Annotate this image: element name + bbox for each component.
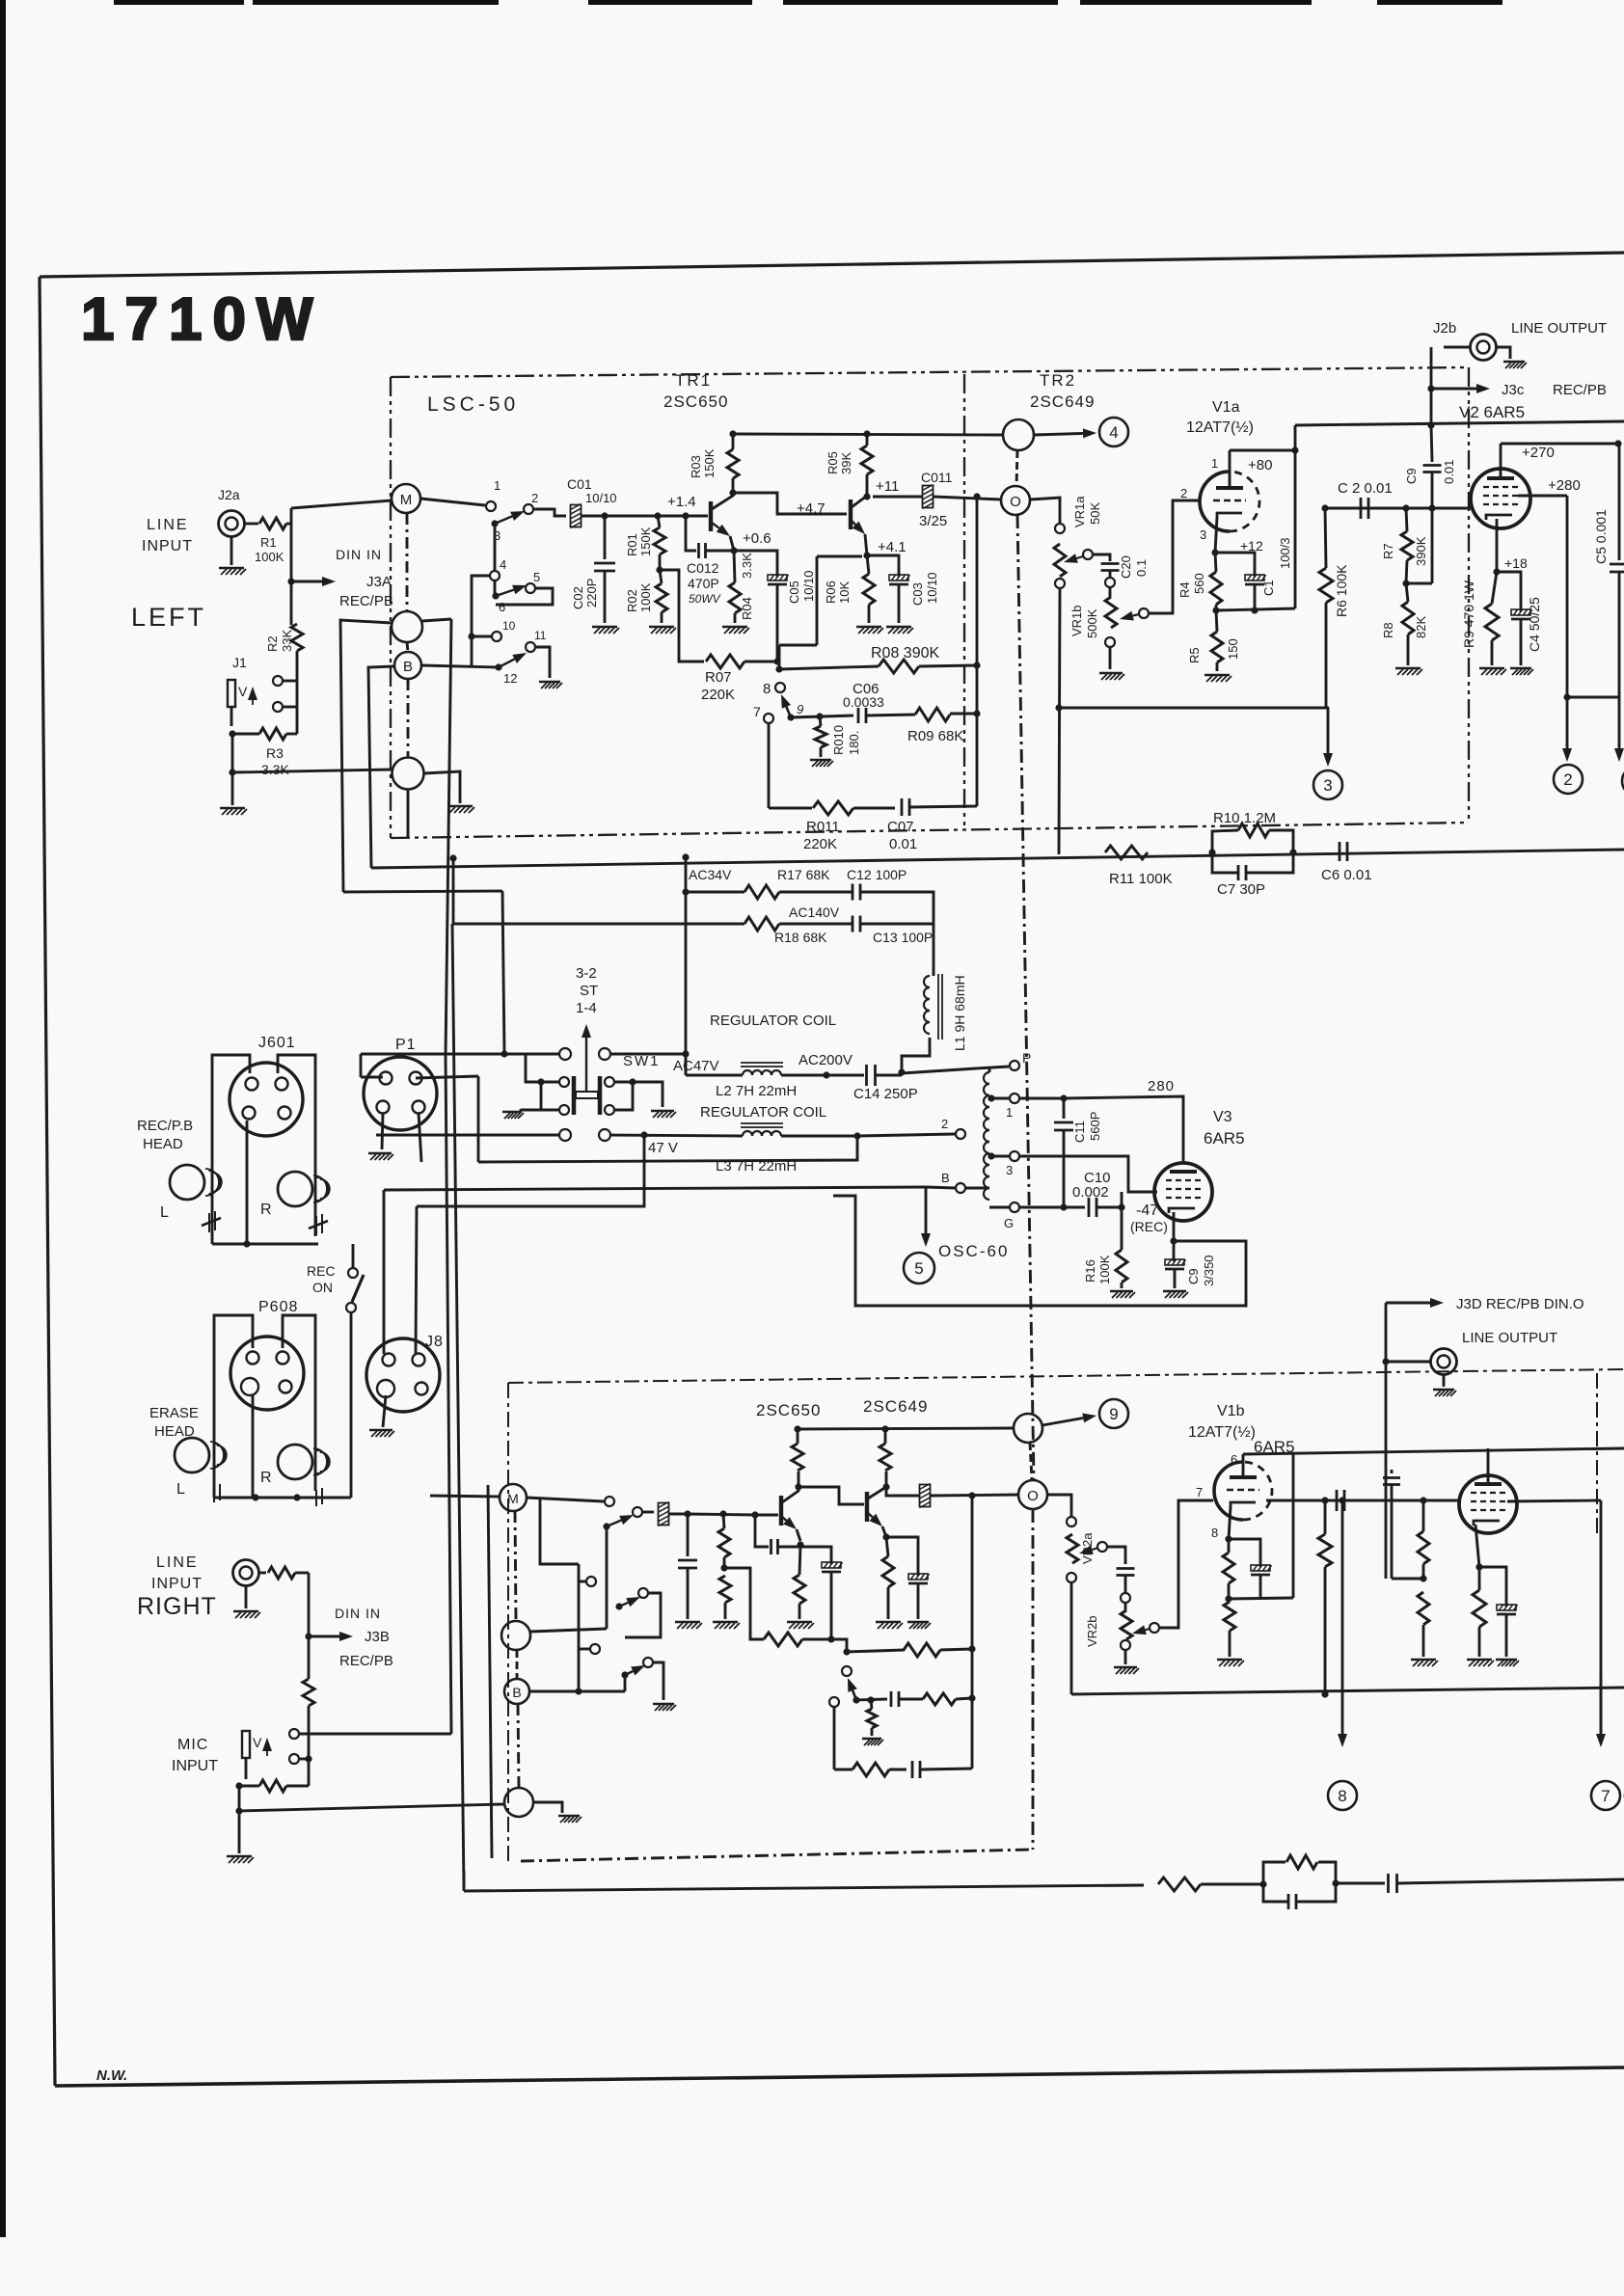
svg-text:220K: 220K (803, 836, 837, 852)
node mech R (629, 1078, 636, 1085)
resistor R07 right (764, 1633, 802, 1646)
wire bundle y1203 (478, 1136, 857, 1162)
svg-text:OSC-60: OSC-60 (938, 1242, 1009, 1260)
switch arm 9-8 (786, 707, 791, 717)
ground under C03 right (907, 1622, 931, 1629)
wire R011 right row (834, 1769, 853, 1771)
svg-text:ERASE: ERASE (149, 1405, 199, 1421)
node L1 C14 (898, 1068, 905, 1075)
resistor R17 (744, 885, 779, 899)
ground under VR1b (1099, 673, 1124, 680)
svg-text:V1a: V1a (1212, 399, 1240, 416)
node rail R03 right (794, 1425, 800, 1432)
transformer T1 winding (984, 1072, 989, 1200)
wire R3 node to ground (231, 734, 234, 805)
svg-text:2: 2 (1180, 486, 1187, 500)
svg-text:LINE: LINE (156, 1554, 199, 1571)
svg-text:C7 30P: C7 30P (1217, 881, 1265, 898)
V3 cathode lead (1173, 1212, 1176, 1241)
svg-text:J601: J601 (258, 1035, 296, 1051)
wire R2 to mic switch (296, 651, 299, 707)
svg-text:2SC649: 2SC649 (863, 1397, 928, 1416)
ground under r11 (653, 1704, 676, 1711)
wire REC ON down (350, 1312, 353, 1498)
resistor R011 right (853, 1763, 889, 1776)
TR2 emitter arrow (852, 521, 855, 525)
contact r5 (638, 1588, 648, 1598)
svg-text:+270: +270 (1522, 445, 1555, 461)
P608 bracket right (283, 1315, 315, 1491)
node C01 out (601, 512, 608, 519)
svg-text:3: 3 (1006, 1163, 1013, 1177)
capacitor C4 (1497, 572, 1521, 611)
block LSC-50 box top (391, 367, 1469, 377)
svg-text:280: 280 (1148, 1078, 1175, 1094)
node R7 bottom (1402, 580, 1409, 586)
wire right mic upper to bundle (299, 1733, 451, 1736)
wire +270 (1501, 443, 1618, 446)
wire base bias to R07 (660, 570, 704, 662)
connector P1 (364, 1057, 437, 1130)
wire cathode row right (1229, 1598, 1293, 1599)
TR2 collector (852, 474, 867, 507)
svg-text:AC200V: AC200V (798, 1052, 853, 1068)
node terminal8 tap (1339, 1497, 1345, 1503)
wire cathode node row (1216, 608, 1295, 610)
mic jack J1 (228, 680, 235, 707)
node V1a cathode (1211, 549, 1218, 555)
svg-text:+11: +11 (876, 478, 899, 495)
wire AC140V drop (452, 858, 455, 924)
connector circle mid (392, 611, 422, 642)
contact 3 arm (491, 520, 498, 527)
capacitor C9 osc (1173, 1241, 1176, 1261)
svg-text:C14 250P: C14 250P (853, 1086, 918, 1102)
arrow DIN IN J3A (291, 581, 322, 583)
svg-text:B: B (512, 1685, 521, 1700)
capacitor C011 (923, 485, 934, 509)
capacitor C9 (1431, 425, 1432, 462)
wire 280 row (1064, 1096, 1183, 1162)
svg-text:5: 5 (914, 1259, 923, 1278)
node TR1 right base (751, 1511, 758, 1518)
switch mech left bar (572, 1076, 577, 1115)
resistor R05 right (880, 1444, 891, 1471)
ground under R8 (1395, 668, 1422, 675)
node +270 end (1614, 440, 1621, 446)
wire SW1 row1 right (610, 1053, 686, 1056)
svg-text:O: O (1027, 1488, 1039, 1504)
P1 ground lead (382, 1113, 383, 1149)
svg-text:LSC-50: LSC-50 (427, 393, 519, 416)
node TR2 emitter (863, 552, 870, 558)
wire mid circle right (422, 619, 451, 621)
svg-text:R9 470 1W: R9 470 1W (1461, 580, 1476, 648)
svg-text:R2: R2 (265, 635, 280, 652)
wire right R3 to ground (238, 1786, 241, 1853)
erase head R (278, 1445, 312, 1479)
switch REC ON (348, 1268, 358, 1278)
resistor R010 right (867, 1709, 877, 1728)
ground under R9 right (1467, 1660, 1494, 1666)
connector circle B right (504, 1679, 529, 1704)
wire C13 right (860, 923, 934, 926)
node tap 1 (988, 1094, 994, 1101)
capacitor C5 (1618, 444, 1621, 560)
V4 screen lead (1507, 1500, 1601, 1501)
wire R08 right row (847, 1650, 905, 1652)
erase L core gap (213, 1486, 215, 1502)
svg-text:L1 9H 68mH: L1 9H 68mH (952, 975, 967, 1051)
wire right jack ground (245, 1586, 248, 1609)
node R7 right top (1420, 1497, 1426, 1503)
svg-text:J3c: J3c (1502, 382, 1525, 398)
resistor R04 (729, 582, 741, 613)
svg-text:R7: R7 (1381, 543, 1395, 559)
erase head L (175, 1438, 209, 1472)
arrow to terminal 4 (1034, 433, 1083, 435)
wire EQ mid (1201, 1883, 1263, 1886)
block right box left (507, 1383, 509, 1861)
capacitor C13 (853, 916, 860, 932)
node right O column (968, 1492, 975, 1499)
node R01 top (654, 512, 661, 519)
resistor R1 right (268, 1567, 295, 1579)
node +80 corner (1291, 446, 1298, 453)
wire osc top (988, 1067, 991, 1072)
svg-text:7: 7 (1601, 1787, 1610, 1805)
node TR1 collector (729, 489, 736, 496)
tube V2 (1471, 469, 1530, 528)
potentiometer VR1b (1105, 597, 1117, 628)
contact 4 (490, 571, 500, 581)
svg-text:50K: 50K (1088, 502, 1102, 525)
node R7 top (1402, 504, 1409, 511)
node R010 right top (867, 1696, 874, 1703)
svg-text:9: 9 (1109, 1405, 1118, 1423)
svg-text:6: 6 (1231, 1452, 1237, 1467)
node TR1 right emitter (797, 1541, 803, 1548)
wire TR2 right link (798, 1487, 864, 1504)
svg-text:R10 1.2M: R10 1.2M (1213, 810, 1276, 826)
svg-text:ON: ON (312, 1280, 333, 1295)
resistor R02 right (719, 1576, 731, 1603)
node R01 right top (719, 1510, 726, 1517)
transistor TR1 (709, 501, 713, 531)
svg-text:TR2: TR2 (1040, 371, 1076, 390)
svg-text:82K: 82K (1414, 616, 1428, 638)
node tap 3 (988, 1152, 994, 1159)
node C11 bottom (1060, 1203, 1067, 1210)
page top print artifact (783, 0, 1058, 5)
capacitor C1 (1215, 553, 1255, 577)
capacitor C03 (867, 555, 899, 577)
capacitor C02 (604, 516, 607, 559)
wire VR1b wiper to grid (1149, 500, 1199, 613)
svg-text:100K: 100K (255, 550, 284, 564)
arrow to terminal 8 (1341, 1500, 1344, 1678)
gang dash 4-O (1016, 450, 1017, 486)
ground under right jack (233, 1611, 260, 1618)
wire shield drop (407, 790, 410, 839)
wire C012 right branch (755, 1515, 769, 1547)
capacitor C1 right (1229, 1539, 1260, 1567)
svg-text:LEFT: LEFT (131, 603, 206, 632)
block LSC-50 box divider (963, 374, 965, 830)
wire B right row (529, 1690, 625, 1693)
arrow J3c (1431, 388, 1476, 391)
capacitor C10 (1089, 1198, 1096, 1217)
svg-text:SW1: SW1 (623, 1053, 661, 1069)
gang dash O down (1017, 515, 1034, 1479)
wire V2 screen (1518, 495, 1567, 498)
svg-text:7: 7 (753, 704, 761, 719)
svg-text:39K: 39K (839, 452, 853, 474)
gang dash B-shield (407, 679, 410, 757)
resistor R07 (706, 655, 744, 668)
wire shield right ground (533, 1802, 562, 1813)
page top print artifact (1080, 0, 1312, 5)
arrow to terminal 3 (1327, 708, 1330, 753)
wire TR2 out (873, 496, 922, 499)
wire contact2 to C01 (533, 509, 566, 516)
svg-text:1: 1 (494, 478, 501, 493)
svg-text:0.002: 0.002 (1072, 1184, 1109, 1201)
svg-text:R05: R05 (826, 451, 840, 474)
resistor R09 (915, 708, 950, 721)
node C11 top (1060, 1094, 1067, 1101)
contact mech L2 (559, 1105, 569, 1115)
svg-text:R17 68K: R17 68K (777, 867, 830, 882)
wire r11 ground (653, 1662, 663, 1700)
capacitor C011 right (920, 1484, 931, 1508)
node rail R05 (863, 430, 870, 437)
wire REC ON up (352, 1244, 355, 1268)
node bus R18 (449, 854, 456, 861)
terminal 7 (1591, 1781, 1620, 1810)
svg-text:5: 5 (533, 570, 540, 584)
contact SW1 b (599, 1048, 610, 1060)
supply rail V2 (1295, 421, 1624, 425)
svg-text:R03: R03 (689, 455, 703, 478)
wire bundle v462 (446, 619, 451, 1056)
svg-text:V2 6AR5: V2 6AR5 (1459, 403, 1525, 421)
contact 12 arm (495, 663, 501, 670)
wire R07 right row (802, 1638, 831, 1641)
V2 cathode lead (1496, 519, 1499, 572)
V2 plate lead (1500, 444, 1502, 478)
contact 8 right (842, 1666, 852, 1676)
svg-text:TR1: TR1 (675, 371, 712, 390)
svg-text:47 V: 47 V (648, 1140, 678, 1156)
wire C10 to grid (1121, 1192, 1123, 1207)
wire EQ start riser (463, 1871, 466, 1891)
page top print artifact (1377, 0, 1502, 5)
node C05 right bottom (827, 1635, 834, 1642)
svg-text:C9: C9 (1404, 468, 1419, 484)
block right box top (508, 1369, 1624, 1383)
wire contact4 left (472, 576, 490, 667)
supply rail TR stage (733, 434, 1003, 435)
arrow to terminal 2 (1566, 697, 1569, 748)
wire O column (976, 497, 979, 806)
wire tap3 row (1020, 1156, 1158, 1192)
svg-text:INPUT: INPUT (142, 538, 193, 554)
border frame (40, 253, 1624, 277)
node c10 (468, 633, 474, 639)
gang dash 9-O right (1030, 1443, 1032, 1480)
TR1 right emitter (782, 1517, 786, 1521)
contact mech R2 (605, 1105, 614, 1115)
ground under J8 (369, 1430, 394, 1437)
J601 center pin drop (246, 1121, 249, 1244)
node R10 left (1208, 849, 1215, 855)
resistor R3 (259, 728, 286, 740)
node EQ box left (1259, 1880, 1266, 1887)
wire EQ end (1397, 1879, 1624, 1883)
wire osc out row (1020, 1097, 1065, 1100)
wire row1 join (685, 1054, 688, 1075)
svg-text:150K: 150K (702, 448, 717, 478)
node R3 left (229, 730, 235, 737)
svg-text:V1b: V1b (1217, 1403, 1245, 1419)
switch mic/line contact lower (273, 702, 283, 712)
arrow to terminal 9 (1042, 1418, 1083, 1426)
potentiometer VR1a (1054, 544, 1066, 577)
ground under VR2b (1114, 1667, 1139, 1674)
V4 cathode lead (1475, 1525, 1479, 1567)
wire SW1 row1 left (361, 1053, 559, 1056)
node R08 right (973, 662, 980, 668)
wire V2 grid row (1325, 507, 1472, 510)
page top print artifact (114, 0, 244, 5)
gang dash bottom row (521, 1850, 1033, 1861)
resistor R011 (813, 801, 853, 815)
VR1b wiper (1139, 608, 1149, 618)
switch right mic upper (289, 1729, 299, 1739)
wire right O column v (971, 1496, 974, 1769)
node grid row right (1321, 1497, 1328, 1503)
wire right input riser (308, 1573, 311, 1679)
wire contact7 right down (833, 1707, 836, 1769)
wire to P terminal (902, 1067, 1009, 1073)
capacitor C07left (902, 798, 909, 816)
node contact 9 right (853, 1696, 859, 1703)
terminal 1 osc (1010, 1094, 1019, 1103)
ground mech right (651, 1111, 676, 1118)
block right box divider (1596, 1373, 1598, 1533)
node R01 bottom (656, 566, 663, 573)
contact SW1 a (559, 1048, 571, 1060)
node V3 cathode (1170, 1237, 1177, 1244)
J601 bracket right (278, 1055, 315, 1236)
node AC200V (823, 1071, 829, 1078)
svg-text:C12 100P: C12 100P (847, 867, 907, 882)
resistor R06 (863, 574, 875, 605)
node right mic (305, 1755, 311, 1762)
svg-text:33K: 33K (280, 630, 294, 652)
node bus 800 (229, 769, 235, 775)
svg-text:+0.6: +0.6 (743, 530, 771, 547)
ground under C02 (592, 627, 619, 634)
wire R6 735 row (1059, 707, 1329, 710)
wire tapG (989, 1206, 1009, 1209)
svg-text:R5: R5 (1187, 647, 1202, 663)
svg-text:C20: C20 (1119, 555, 1133, 579)
wire to DIN shield circle (232, 770, 392, 772)
block LSC-50 box bottom (391, 823, 1469, 838)
svg-text:2: 2 (531, 491, 538, 505)
svg-text:150: 150 (1226, 638, 1240, 660)
svg-text:220P: 220P (584, 579, 599, 608)
svg-text:12AT7(½): 12AT7(½) (1186, 419, 1254, 436)
wire tap1 (991, 1097, 1009, 1100)
node R3 right left (235, 1782, 242, 1789)
ground right shield (558, 1816, 582, 1823)
capacitor C7 bottom right (1288, 1894, 1296, 1909)
wire contact2 right to cap (642, 1511, 654, 1514)
connector circle mid right (501, 1621, 530, 1650)
svg-text:V: V (253, 1735, 262, 1750)
ground under R9 (1479, 668, 1506, 675)
connector circle B (394, 652, 421, 679)
svg-text:10/10: 10/10 (585, 491, 617, 505)
wire emitter bus (777, 661, 779, 663)
resistor R03 right (792, 1444, 803, 1471)
svg-text:(REC): (REC) (1130, 1219, 1168, 1234)
wire SW1 row2 right (610, 1135, 743, 1136)
svg-text:1710W: 1710W (81, 286, 323, 353)
ground under R010 right (862, 1739, 883, 1745)
svg-text:150K: 150K (638, 527, 653, 556)
svg-text:VR2b: VR2b (1085, 1615, 1099, 1647)
capacitor C4 right (1479, 1567, 1506, 1607)
svg-text:180.: 180. (847, 731, 861, 755)
svg-text:390K: 390K (1414, 536, 1428, 566)
node right common (235, 1807, 242, 1814)
contact VR1a top (1055, 524, 1065, 533)
switch mic/line contact upper (273, 676, 283, 686)
terminal 3 osc (1010, 1151, 1019, 1161)
svg-text:VR1a: VR1a (1072, 496, 1087, 527)
svg-text:DIN IN: DIN IN (336, 547, 382, 562)
node V4 cathode (1475, 1563, 1482, 1570)
wire tap3 (991, 1155, 1009, 1158)
ground under C4 right (1496, 1660, 1519, 1666)
svg-text:R4: R4 (1177, 581, 1192, 598)
wire J8 left riser (383, 1190, 386, 1354)
wire J8 right riser (416, 1206, 417, 1354)
resistor R4 right (1223, 1553, 1234, 1583)
node R10 right (1289, 849, 1296, 855)
svg-text:R18 68K: R18 68K (774, 930, 827, 945)
jack J2a line input (219, 511, 245, 537)
wire osc return (833, 1196, 1246, 1306)
svg-text:C5 0.001: C5 0.001 (1593, 509, 1609, 564)
resistor R9 (1485, 604, 1499, 640)
wire R7R8 to C9 (1406, 582, 1432, 585)
node R08 right out (968, 1645, 975, 1652)
svg-text:12: 12 (503, 671, 517, 686)
wire AC34V drop (685, 857, 688, 1075)
wire C07 to bus (909, 806, 977, 807)
switch mech link (576, 1092, 598, 1098)
transistor TR1 right (779, 1496, 783, 1526)
node TR2 right emitter (882, 1533, 889, 1540)
wire TR2 right out (886, 1487, 919, 1496)
svg-text:4: 4 (500, 557, 506, 572)
P608 bracket left (214, 1315, 253, 1498)
